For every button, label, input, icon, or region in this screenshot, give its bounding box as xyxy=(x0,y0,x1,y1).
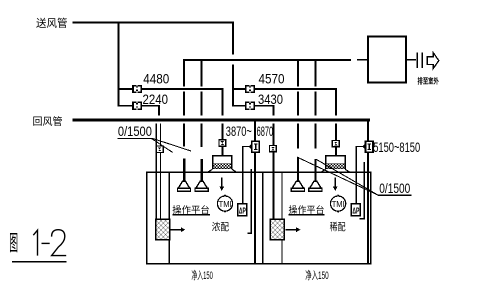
left room inner wall xyxy=(169,172,170,219)
airflow arrow right (right room) xyxy=(286,227,301,232)
fan box xyxy=(368,37,406,83)
P-box left xyxy=(238,204,247,216)
leader line D3 xyxy=(297,157,378,195)
svg-text:4480: 4480 xyxy=(143,70,169,86)
TMI instrument circle right xyxy=(331,194,346,213)
branch 2240 duct line xyxy=(118,105,161,107)
svg-text:2240: 2240 xyxy=(143,91,169,107)
svg-text:0/1500: 0/1500 xyxy=(379,180,410,196)
right room inner wall xyxy=(281,172,282,219)
wire 4570 drop to right HEPA box xyxy=(335,88,337,115)
svg-text:ΔP: ΔP xyxy=(239,205,246,215)
wire exhaust header xyxy=(183,59,351,61)
svg-text:净入150: 净入150 xyxy=(305,268,329,282)
leader line D1 xyxy=(153,139,191,152)
right HEPA airflow arrow down xyxy=(333,178,338,191)
wire fan outlet xyxy=(406,59,416,61)
damper on 3430 xyxy=(245,102,255,110)
svg-text:TMI: TMI xyxy=(219,199,232,209)
left wall filter unit (hatched) xyxy=(156,219,170,240)
wire hood exhaust drop 2 xyxy=(201,59,203,86)
right HEPA supply box xyxy=(321,156,349,172)
svg-text:6870: 6870 xyxy=(257,124,274,139)
wire right return in-room duct xyxy=(367,152,369,264)
svg-text:操作平台: 操作平台 xyxy=(289,204,325,215)
room partition wall xyxy=(262,172,263,263)
svg-text:3430: 3430 xyxy=(258,91,283,107)
leader line D4 xyxy=(316,159,378,195)
exhaust hood 4 xyxy=(309,181,322,191)
wire hood exhaust drop 3 xyxy=(297,59,299,86)
svg-text:浓配: 浓配 xyxy=(212,221,229,233)
svg-text:回风管: 回风管 xyxy=(33,115,63,128)
left HEPA airflow arrow down xyxy=(219,178,224,191)
wire supply drop left (to 4480/2240 branches) xyxy=(118,22,120,107)
svg-text:3870~: 3870~ xyxy=(226,124,252,139)
return fan/valve symbol left xyxy=(249,141,259,152)
fan outlet flex joint bars xyxy=(416,53,418,69)
svg-text:净入150: 净入150 xyxy=(191,268,213,282)
svg-text:5150~8150: 5150~8150 xyxy=(373,139,420,155)
TMI instrument circle left xyxy=(217,194,232,213)
wire return drop right (header end corner) xyxy=(367,119,369,142)
title underline xyxy=(12,261,66,263)
exhaust hood 3 xyxy=(291,181,304,191)
sensor box on 2240 drop xyxy=(156,146,163,152)
wire 2240 in-room duct double line xyxy=(156,124,157,220)
branch 4480 duct line xyxy=(118,88,224,90)
svg-text:稀配: 稀配 xyxy=(330,220,346,233)
exhaust hood 1 xyxy=(177,181,190,191)
damper on 4480 xyxy=(132,85,142,93)
left return duct floor hook xyxy=(247,233,252,235)
wire hood exhaust drop 1 (broken at crossings) xyxy=(183,59,185,86)
wire return drop left xyxy=(254,121,256,141)
leader line D2 xyxy=(152,139,173,153)
sensor box on 3430 drop xyxy=(270,146,277,152)
wire 4480 drop to left HEPA box xyxy=(222,88,224,115)
sensor box on 4480 drop xyxy=(219,140,226,146)
airflow arrow right (left room) xyxy=(170,227,185,232)
branch 3430 duct line xyxy=(233,105,274,107)
right wall filter unit (hatched) xyxy=(270,219,284,240)
P-box right xyxy=(351,204,360,216)
exhaust outlet arrow xyxy=(427,53,439,69)
svg-text:排至室外: 排至室外 xyxy=(418,76,440,86)
wire return header (thick) xyxy=(72,119,370,122)
wire left P-box feed xyxy=(242,146,251,147)
wire supply header xyxy=(73,22,235,24)
damper on 4570 xyxy=(245,85,255,93)
svg-text:4570: 4570 xyxy=(259,70,285,86)
wire right P-box feed xyxy=(356,146,365,147)
wire 2240 corner drop xyxy=(158,105,160,116)
sensor box on 4570 drop xyxy=(332,141,339,147)
exhaust hood 2 xyxy=(195,181,208,191)
wire 3430 drop to right wall filter xyxy=(272,105,274,116)
right return duct floor hook xyxy=(359,218,365,220)
branch 4570 duct line xyxy=(233,88,337,90)
room outline xyxy=(147,172,371,263)
svg-text:送风管: 送风管 xyxy=(36,17,68,30)
svg-text:操作平台: 操作平台 xyxy=(172,204,210,215)
wire hood exhaust drop 4 xyxy=(314,59,316,86)
svg-text:0/1500: 0/1500 xyxy=(118,123,152,139)
return fan/valve symbol right xyxy=(363,141,373,152)
wire left return in-room duct xyxy=(254,152,256,264)
svg-text:图: 图 xyxy=(9,232,18,256)
wire supply drop right (to 4570/3430 branches, broken at exhaust header crossing) xyxy=(232,22,234,55)
damper on 2240 xyxy=(132,102,142,110)
left HEPA supply box xyxy=(208,156,236,172)
